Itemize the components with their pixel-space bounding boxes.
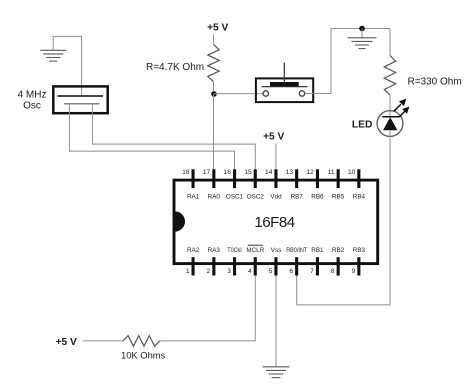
node A junction dot — [211, 91, 217, 97]
LED D1 arrow 2 — [399, 107, 409, 118]
svg-text:R=330 Ohm: R=330 Ohm — [408, 76, 462, 87]
IC U1 notch — [175, 211, 185, 231]
svg-text:16: 16 — [224, 169, 232, 176]
wire Vss (pin 5) to ground G3 — [275, 276, 277, 367]
svg-text:14: 14 — [265, 169, 273, 176]
svg-text:2: 2 — [207, 268, 211, 275]
svg-text:+5 V: +5 V — [207, 22, 228, 33]
svg-text:RB0/INT: RB0/INT — [286, 247, 307, 254]
wire R2 to LED D1 — [389, 95, 391, 117]
LED D1 arrow 1 — [394, 99, 407, 112]
svg-text:16F84: 16F84 — [254, 214, 294, 231]
ground G2 (top-right) — [348, 29, 377, 49]
IC U1 pin 7 bar (bottom) — [316, 257, 319, 275]
svg-text:13: 13 — [286, 169, 294, 176]
IC U1 pin 14 bar (top) — [274, 169, 277, 188]
IC U1 pin 10 bar (top) — [357, 169, 360, 188]
svg-text:RB5: RB5 — [332, 194, 345, 201]
IC U1 pin 5 bar (bottom) — [274, 257, 277, 275]
LED D1 triangle — [383, 117, 397, 130]
IC U1 pin 11 bar (top) — [337, 169, 340, 188]
svg-text:12: 12 — [306, 169, 314, 176]
wire oscillator right pin to OSC2 (pin 15) — [92, 104, 255, 170]
svg-text:T0CkI: T0CkI — [227, 247, 242, 254]
svg-text:RB6: RB6 — [311, 194, 324, 201]
svg-text:4: 4 — [248, 268, 252, 275]
svg-text:R=4.7K Ohm: R=4.7K Ohm — [146, 62, 204, 73]
svg-text:OSC2: OSC2 — [247, 194, 265, 201]
svg-text:17: 17 — [203, 169, 211, 176]
switch S1 actuator stem — [283, 63, 285, 83]
ground G1 (top-left) — [40, 36, 66, 61]
svg-text:+5 V: +5 V — [263, 132, 284, 143]
label 4 MHz Osc — [18, 89, 47, 111]
svg-text:RA0: RA0 — [208, 194, 221, 201]
svg-text:Osc: Osc — [23, 100, 41, 111]
wire ground G1 to oscillator top — [53, 36, 81, 96]
wire rail to resistor R2 — [389, 29, 391, 56]
IC U1 pin 9 bar (bottom) — [357, 257, 360, 275]
svg-text:5: 5 — [269, 268, 273, 275]
svg-text:RB7: RB7 — [291, 194, 304, 201]
svg-text:RB3: RB3 — [353, 247, 366, 254]
IC U1 16F84 body — [174, 180, 378, 264]
wire node A to RA0 (pin 17) — [213, 94, 215, 170]
switch S1 left terminal — [263, 91, 268, 96]
svg-text:RB2: RB2 — [332, 247, 345, 254]
switch S1 contact line — [262, 86, 308, 88]
svg-text:4 MHz: 4 MHz — [18, 89, 47, 100]
svg-text:10K Ohms: 10K Ohms — [121, 350, 166, 361]
IC U1 pin 12 bar (top) — [316, 169, 319, 188]
resistor R3 10K — [123, 336, 160, 347]
LED D1 cathode bar — [382, 116, 399, 118]
svg-text:RA3: RA3 — [208, 247, 221, 254]
svg-text:RA2: RA2 — [187, 247, 200, 254]
ground G3 (bottom) — [263, 367, 290, 378]
IC U1 pin 4 bar (bottom) — [254, 257, 257, 275]
svg-text:OSC1: OSC1 — [226, 194, 244, 201]
IC U1 pin 6 bar (bottom) — [295, 257, 298, 275]
wire MCLR (pin 4) to R3 net — [160, 276, 255, 341]
svg-text:RA1: RA1 — [187, 194, 200, 201]
svg-text:8: 8 — [331, 268, 335, 275]
svg-text:15: 15 — [244, 169, 252, 176]
svg-text:1: 1 — [186, 268, 190, 275]
svg-text:RB1: RB1 — [311, 247, 324, 254]
wire switch S1 to top rail — [305, 29, 390, 94]
switch S1 button bar — [270, 82, 299, 86]
svg-text:Vss: Vss — [271, 247, 282, 254]
oscillator X1 crystal bottom plate — [64, 103, 100, 105]
IC U1 pin 13 bar (top) — [295, 169, 298, 188]
wire +5V to resistor R1 — [213, 34, 215, 44]
oscillator X1 crystal top plate — [58, 95, 104, 97]
wire +5V to resistor R3 — [83, 340, 123, 342]
svg-text:3: 3 — [227, 268, 231, 275]
svg-text:10: 10 — [348, 169, 356, 176]
IC U1 pin 2 bar (bottom) — [212, 257, 215, 275]
svg-text:+5 V: +5 V — [56, 337, 77, 348]
LED D1 circle — [377, 111, 403, 137]
node B junction dot — [359, 26, 365, 32]
IC U1 pin 16 bar (top) — [233, 169, 236, 188]
IC U1 pin 3 bar (bottom) — [233, 257, 236, 275]
MCLR overline — [248, 244, 263, 246]
svg-text:RB4: RB4 — [353, 194, 366, 201]
wire LED D1 to RB0/INT (pin 6) — [297, 130, 390, 305]
IC U1 pin 8 bar (bottom) — [337, 257, 340, 275]
switch S1 right terminal — [299, 91, 304, 96]
wire node A to switch S1 — [214, 93, 263, 95]
svg-text:7: 7 — [310, 268, 314, 275]
IC U1 pin 18 bar (top) — [192, 169, 195, 188]
svg-text:MCLR: MCLR — [246, 247, 264, 254]
switch S1 box — [256, 78, 313, 102]
svg-text:Vdd: Vdd — [270, 194, 282, 201]
svg-text:11: 11 — [328, 169, 335, 176]
svg-text:9: 9 — [352, 268, 356, 275]
resistor R2 330 — [384, 56, 395, 96]
svg-text:LED: LED — [352, 119, 373, 130]
resistor R1 4.7K — [208, 45, 219, 82]
IC U1 pin 1 bar (bottom) — [192, 257, 195, 275]
IC U1 pin 17 bar (top) — [212, 169, 215, 188]
wire R1 to node A — [213, 82, 215, 94]
IC U1 pin 15 bar (top) — [254, 169, 257, 188]
oscillator X1 box — [53, 86, 107, 113]
wire oscillator left pin to OSC1 (pin 16) — [69, 104, 234, 170]
svg-text:6: 6 — [289, 268, 293, 275]
wire +5V to Vdd (pin 14) — [275, 144, 277, 170]
svg-text:18: 18 — [182, 169, 190, 176]
